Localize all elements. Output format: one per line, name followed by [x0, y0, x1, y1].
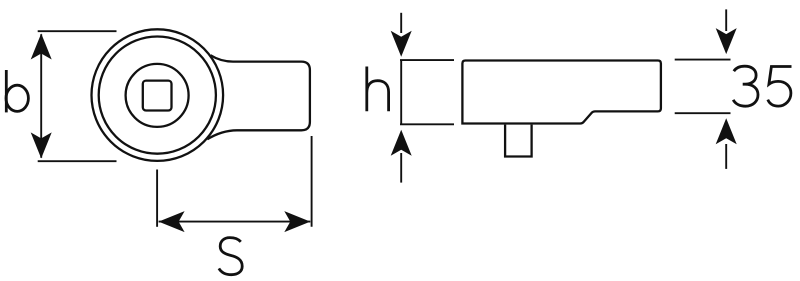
dim 35 lower extension line — [675, 112, 731, 114]
dim h bottom tick — [400, 123, 454, 125]
dim 35 up arrowhead — [716, 118, 737, 144]
dim h vertical line — [400, 60, 402, 124]
dim b up arrowhead — [31, 34, 52, 60]
dim h top tick — [400, 59, 454, 61]
tang outline — [207, 55, 310, 139]
dim h down arrowhead — [391, 31, 412, 57]
label 3 — [733, 66, 758, 106]
dim h up arrowhead — [391, 130, 412, 156]
dim 35 lower arrow shaft — [725, 144, 727, 169]
dim h upper arrow shaft — [400, 13, 402, 33]
side view body outline — [462, 61, 661, 124]
dim S arrow shaft — [159, 221, 311, 223]
label h — [367, 67, 389, 112]
dim b top extension line — [38, 30, 117, 32]
label b — [5, 70, 8, 112]
wrench head inner ring — [99, 37, 216, 154]
wrench head outer circle — [92, 29, 224, 161]
label 5 — [768, 67, 792, 107]
side view square drive tang — [505, 125, 531, 157]
dim 35 upper arrow shaft — [725, 9, 727, 31]
dim b down arrowhead — [31, 132, 52, 158]
dim b bottom extension line — [38, 160, 117, 162]
dim S left extension line — [156, 170, 158, 227]
square drive hole — [143, 81, 172, 111]
dim h lower arrow shaft — [400, 153, 402, 183]
label S — [219, 238, 242, 275]
dim S left arrowhead — [159, 211, 185, 232]
dim S right arrowhead — [284, 211, 310, 232]
dim 35 down arrowhead — [716, 28, 737, 54]
dim S right extension line — [311, 136, 313, 227]
square hole boss circle — [126, 64, 189, 127]
dim b arrow shaft — [40, 34, 42, 158]
dim 35 upper extension line — [675, 59, 731, 61]
